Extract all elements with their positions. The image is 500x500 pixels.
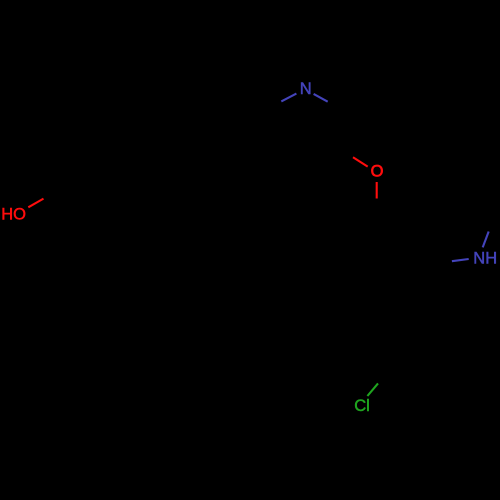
wire N-C half-bond right <box>314 94 328 102</box>
svg-text:O: O <box>371 163 384 181</box>
svg-text:Cl: Cl <box>354 397 370 415</box>
wire O-C half-bond down <box>376 182 378 199</box>
wire O-C half-bond upper-left <box>353 157 368 166</box>
wire N-C half-bond up-right <box>483 232 489 248</box>
svg-text:NH: NH <box>473 250 497 268</box>
wire N-C half-bond left <box>452 259 469 261</box>
wire Cl-C half-bond <box>367 383 378 396</box>
svg-text:HO: HO <box>1 205 26 223</box>
wire N-C half-bond left <box>281 94 296 102</box>
svg-text:N: N <box>300 80 312 98</box>
wire O-C half-bond from hydroxyl <box>28 199 43 208</box>
